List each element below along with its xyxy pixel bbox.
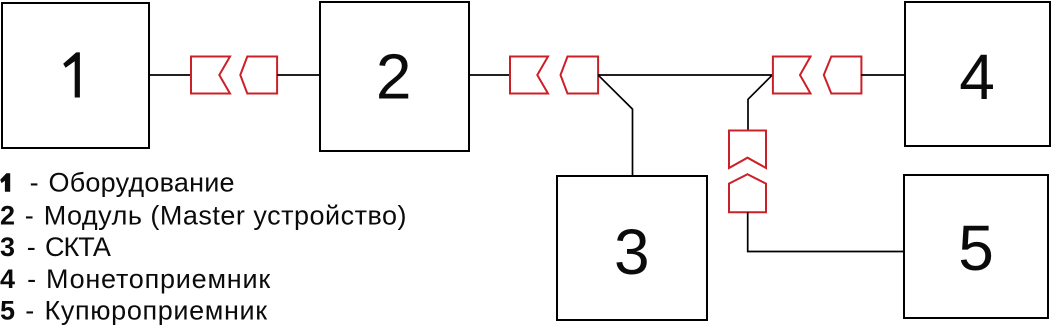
connector plug 2 [561, 57, 599, 94]
svg-text:2: 2 [376, 41, 412, 113]
box 1 (Оборудование) [2, 3, 149, 148]
svg-text:-Оборудование: -Оборудование [30, 168, 235, 198]
connector socket vertical (notch down) [729, 131, 766, 169]
svg-text:3-СКТА: 3-СКТА [0, 232, 111, 262]
wire branch junction to vertical connector (diagonal + vertical) [748, 75, 772, 131]
connector socket 2 [510, 57, 548, 94]
wire box2 to connector pair 2 [469, 74, 510, 76]
wire branch to box 3 (diagonal + vertical) [598, 75, 632, 176]
wire box1 to connector pair 1 [149, 74, 191, 76]
label 1 [63, 52, 80, 97]
connector plug vertical (point up) [729, 174, 766, 212]
svg-text:2-Модуль (Master устройство): 2-Модуль (Master устройство) [0, 200, 407, 230]
connector socket 1 [191, 57, 230, 94]
connector socket 3 [773, 57, 811, 94]
wire plug1 to box2 [277, 74, 320, 76]
box 3 (СКТА) [557, 176, 707, 320]
svg-text:5-Купюроприемник: 5-Купюроприемник [0, 295, 268, 325]
box 2 (Модуль Master) [320, 2, 469, 151]
wire plug3 to box4 [861, 74, 905, 76]
svg-text:4: 4 [959, 41, 995, 113]
connector plug 1 [240, 57, 277, 94]
legend line 1 [0, 173, 10, 191]
svg-text:3: 3 [614, 216, 650, 288]
connector plug 3 [824, 57, 862, 94]
wire plug2 to junction and socket3 [598, 74, 773, 76]
wire plug-v down and right to box5 [748, 212, 904, 251]
box 4 (Монетоприемник) [905, 2, 1050, 146]
svg-text:5: 5 [958, 212, 994, 284]
box 5 (Купюроприемник) [904, 175, 1048, 318]
svg-text:4-Монетоприемник: 4-Монетоприемник [0, 264, 271, 294]
